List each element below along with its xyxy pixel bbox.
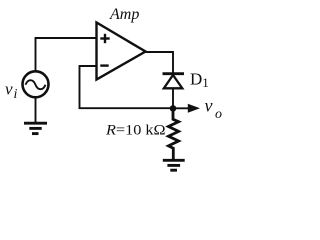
diode D1 [163,74,185,89]
output arrow to vo [173,104,200,113]
wire from op-amp output to diode [146,52,174,74]
resistor R (zigzag) with leads [168,108,178,160]
svg-text:R=10 kΩ: R=10 kΩ [105,122,166,138]
node (junction dot) [170,105,177,112]
svg-text:Amp: Amp [109,6,139,23]
ground under resistor [163,160,185,170]
voltage source vi [23,71,49,97]
ground under source [24,123,47,133]
wire from diode to node [172,88,174,108]
wire from source top to op-amp noninverting input [36,38,97,71]
wire from source bottom to ground [35,97,37,122]
op-amp U1 [97,23,146,80]
feedback wire from inverting input to output node [80,66,171,108]
